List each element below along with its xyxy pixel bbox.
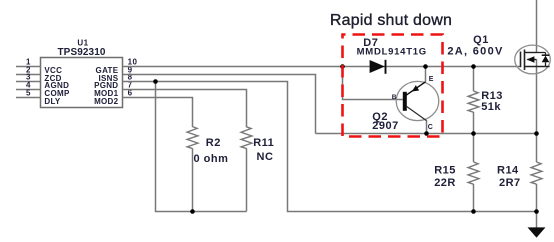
junction node at 473.5,211.5 — [471, 209, 476, 214]
svg-text:NC: NC — [257, 151, 274, 163]
wire: R13 bottom lead — [473, 112, 475, 134]
svg-text:MMDL914T1G: MMDL914T1G — [357, 47, 427, 58]
wire: PGND (pin 8) right, down, along bottom to ground — [123, 82, 537, 212]
junction node at 426.5,133.5 — [424, 131, 429, 136]
wire: R15 top lead — [473, 134, 475, 163]
wire: Q2 collector vertical — [426, 120, 428, 133]
junction node at 536.5,133.5 — [534, 131, 539, 136]
svg-text:R15: R15 — [434, 165, 456, 177]
Q1 source arrow stub — [527, 56, 537, 63]
svg-text:R2: R2 — [206, 137, 221, 149]
svg-text:C: C — [428, 124, 433, 131]
Q2 collector line — [406, 106, 427, 121]
wire: GATE (pin 10) net to MOSFET gate — [123, 66, 521, 68]
rapid-shutdown dashed highlight box — [343, 35, 443, 137]
wire: R2 bottom lead — [192, 148, 194, 211]
resistor R2 — [187, 127, 198, 149]
junction node at 536.5,211.5 — [534, 209, 539, 214]
wire: ISNS (pin 9) right then down — [123, 75, 316, 134]
svg-text:Rapid shut down: Rapid shut down — [330, 12, 452, 29]
wire: Q2 base run from gate net — [343, 67, 403, 100]
wire: current-sense horizontal run — [316, 133, 537, 135]
Q2 base bar — [403, 92, 407, 111]
svg-text:MOD2: MOD2 — [94, 97, 119, 106]
U1 pin 4 (COMP) stub wire — [16, 89, 41, 91]
U1 pin 5 (DLY) stub wire — [16, 97, 41, 99]
wire: R2/R11 bottom return to PGND junction — [156, 82, 247, 212]
wire: Q1 drain up to supply — [536, 0, 538, 53]
U1 pin 3 (AGND) stub wire — [16, 81, 41, 83]
svg-text:51k: 51k — [481, 101, 501, 113]
svg-text:2A, 600V: 2A, 600V — [447, 46, 503, 58]
wire: Q1 source down to sense net — [536, 60, 538, 134]
Q1 gate bar — [520, 52, 522, 68]
svg-text:2907: 2907 — [372, 120, 398, 132]
Q2 emitter line with arrow — [406, 82, 426, 96]
svg-text:DLY: DLY — [44, 97, 61, 106]
Q1 body diode — [537, 53, 550, 67]
resistor R13 — [468, 91, 479, 112]
svg-text:22R: 22R — [434, 177, 456, 189]
svg-text:5: 5 — [26, 88, 31, 97]
junction node at 155.5,81.5 — [153, 79, 158, 84]
resistor R14 — [531, 162, 542, 184]
diode D7 symbol — [370, 60, 386, 74]
svg-text:0 ohm: 0 ohm — [194, 153, 229, 165]
ground symbol — [528, 227, 546, 237]
junction node at 473.5,133.5 — [471, 131, 476, 136]
svg-text:R14: R14 — [497, 165, 519, 177]
junction node at 342.5,66.5 — [340, 64, 345, 69]
svg-text:E: E — [429, 76, 434, 83]
wire: R11 bottom lead — [246, 148, 248, 211]
svg-text:R11: R11 — [253, 137, 274, 149]
U1 pin 2 (ZCD) stub wire — [16, 74, 41, 76]
wire: R15 bottom lead — [473, 184, 475, 212]
wire: R13 top lead — [473, 67, 475, 92]
wire: ground stem — [536, 212, 538, 228]
wire: Q2 emitter vertical — [425, 67, 427, 82]
junction node at 425.5,66.5 — [423, 64, 428, 69]
junction node at 192.5,211.5 — [190, 209, 195, 214]
Q1 drain stub — [525, 52, 537, 54]
Q1 bottom stub — [525, 66, 550, 68]
wire: R14 top lead — [536, 134, 538, 163]
svg-text:TPS92310: TPS92310 — [57, 47, 105, 58]
transistor Q2 circle — [396, 81, 439, 120]
wire: R14 bottom lead — [536, 184, 538, 212]
svg-text:Q1: Q1 — [473, 34, 489, 46]
junction node at 473.5,66.5 — [471, 64, 476, 69]
MOSFET Q1 circle — [515, 45, 551, 74]
svg-text:B: B — [392, 94, 397, 101]
resistor R11 — [241, 127, 252, 149]
wire: MOD2 (pin 6) to R2 — [123, 98, 193, 128]
svg-text:2R7: 2R7 — [499, 177, 521, 189]
resistor R15 — [468, 162, 479, 184]
U1 pin 1 (VCC) stub wire — [16, 66, 41, 68]
Q1 channel bar — [524, 50, 526, 71]
IC U1 TPS92310 body — [41, 58, 123, 108]
wire: MOD1 (pin 7) to R11 — [123, 90, 247, 128]
